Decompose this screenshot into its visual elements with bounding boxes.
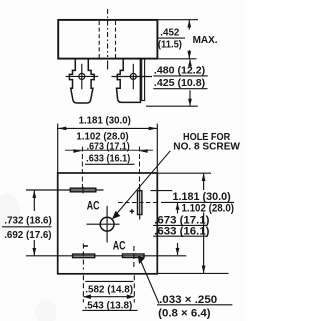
svg-text:.480 (12.2): .480 (12.2) <box>154 66 205 77</box>
svg-text:.582 (14.8): .582 (14.8) <box>85 284 133 295</box>
svg-text:MAX.: MAX. <box>193 35 218 46</box>
svg-text:1.181 (30.0): 1.181 (30.0) <box>173 191 232 203</box>
svg-text:.425 (10.8): .425 (10.8) <box>154 78 205 89</box>
svg-text:.673 (17.1): .673 (17.1) <box>154 215 210 227</box>
svg-text:.732 (18.6): .732 (18.6) <box>4 216 51 227</box>
svg-text:1.102 (28.0): 1.102 (28.0) <box>182 203 235 214</box>
svg-text:(0.8 × 6.4): (0.8 × 6.4) <box>158 308 211 320</box>
svg-text:AC: AC <box>113 240 126 252</box>
svg-text:(11.5): (11.5) <box>158 39 182 50</box>
svg-text:AC: AC <box>87 200 100 212</box>
svg-text:.692 (17.6): .692 (17.6) <box>4 230 51 241</box>
svg-text:1.181 (30.0): 1.181 (30.0) <box>79 115 131 126</box>
svg-text:.633 (16.1): .633 (16.1) <box>86 152 130 163</box>
svg-text:.033 × .250: .033 × .250 <box>159 294 217 306</box>
svg-text:.452: .452 <box>160 28 180 39</box>
svg-text:NO. 8 SCREW: NO. 8 SCREW <box>173 141 240 152</box>
svg-text:.633 (16.1): .633 (16.1) <box>154 226 210 238</box>
